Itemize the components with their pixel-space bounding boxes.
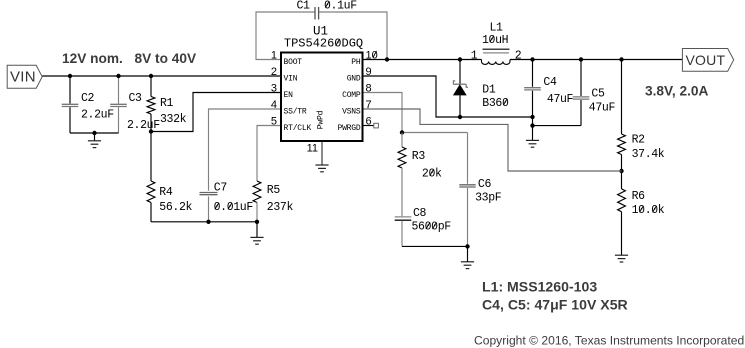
svg-text:C8: C8	[413, 207, 427, 220]
svg-text:PWRGD: PWRGD	[337, 124, 360, 133]
svg-text:3: 3	[271, 82, 277, 94]
svg-text:C2: C2	[81, 92, 95, 105]
svg-text:C1: C1	[297, 0, 311, 12]
svg-text:5600pF: 5600pF	[412, 221, 452, 234]
svg-text:8: 8	[366, 82, 372, 94]
svg-text:R2: R2	[632, 134, 646, 147]
svg-text:C4, C5: 47μF 10V X5R: C4, C5: 47μF 10V X5R	[482, 297, 628, 313]
svg-text:C6: C6	[478, 178, 492, 191]
svg-text:B360: B360	[482, 97, 509, 110]
svg-text:C5: C5	[591, 87, 605, 100]
svg-text:R5: R5	[267, 184, 281, 197]
svg-text:RT/CLK: RT/CLK	[284, 124, 312, 133]
svg-text:1: 1	[471, 49, 478, 62]
svg-text:6: 6	[366, 115, 372, 127]
svg-text:TPS54260DGQ: TPS54260DGQ	[284, 37, 363, 51]
svg-text:12V nom.: 12V nom.	[62, 51, 123, 66]
svg-text:PH: PH	[351, 58, 361, 67]
svg-text:VIN: VIN	[284, 75, 298, 84]
svg-text:7: 7	[366, 99, 372, 111]
svg-text:R3: R3	[412, 150, 426, 163]
svg-text:VIN: VIN	[10, 69, 36, 86]
svg-text:D1: D1	[482, 84, 496, 97]
svg-text:VOUT: VOUT	[686, 52, 726, 68]
svg-text:Copyright © 2016, Texas Instru: Copyright © 2016, Texas Instruments Inco…	[474, 333, 744, 347]
svg-text:332k: 332k	[160, 113, 187, 126]
svg-text:2: 2	[271, 66, 277, 78]
svg-text:L1: L1	[490, 21, 504, 34]
svg-text:4: 4	[271, 99, 277, 111]
svg-text:37.4k: 37.4k	[632, 148, 665, 161]
svg-text:33pF: 33pF	[475, 192, 502, 205]
svg-text:EN: EN	[284, 91, 294, 100]
svg-text:8V to 40V: 8V to 40V	[135, 51, 197, 66]
svg-text:10.0k: 10.0k	[632, 204, 665, 217]
svg-text:GND: GND	[347, 75, 361, 84]
svg-text:11: 11	[307, 143, 318, 155]
svg-text:0.01uF: 0.01uF	[214, 201, 254, 214]
svg-text:C3: C3	[129, 92, 143, 105]
svg-text:237k: 237k	[267, 201, 294, 214]
svg-text:2.2uF: 2.2uF	[127, 119, 160, 132]
svg-text:2: 2	[515, 49, 522, 62]
svg-text:R1: R1	[160, 97, 174, 110]
svg-text:SS/TR: SS/TR	[284, 108, 307, 117]
svg-text:5: 5	[271, 115, 277, 127]
svg-text:56.2k: 56.2k	[159, 201, 192, 214]
svg-text:VSNS: VSNS	[342, 108, 361, 117]
svg-text:C7: C7	[214, 182, 227, 195]
svg-text:9: 9	[366, 66, 372, 78]
svg-text:R4: R4	[159, 186, 173, 199]
svg-text:BOOT: BOOT	[284, 58, 303, 67]
svg-text:C4: C4	[543, 76, 557, 89]
svg-text:COMP: COMP	[342, 91, 361, 100]
svg-text:47uF: 47uF	[589, 101, 616, 114]
svg-text:R6: R6	[632, 190, 646, 203]
svg-text:1: 1	[271, 49, 277, 61]
svg-text:L1: MSS1260-103: L1: MSS1260-103	[482, 279, 597, 295]
svg-text:3.8V, 2.0A: 3.8V, 2.0A	[645, 83, 709, 98]
svg-text:2.2uF: 2.2uF	[81, 109, 114, 122]
svg-text:10uH: 10uH	[482, 34, 508, 47]
svg-text:47uF: 47uF	[547, 93, 574, 106]
svg-text:PwPd: PwPd	[317, 110, 326, 129]
svg-text:20k: 20k	[422, 167, 442, 180]
